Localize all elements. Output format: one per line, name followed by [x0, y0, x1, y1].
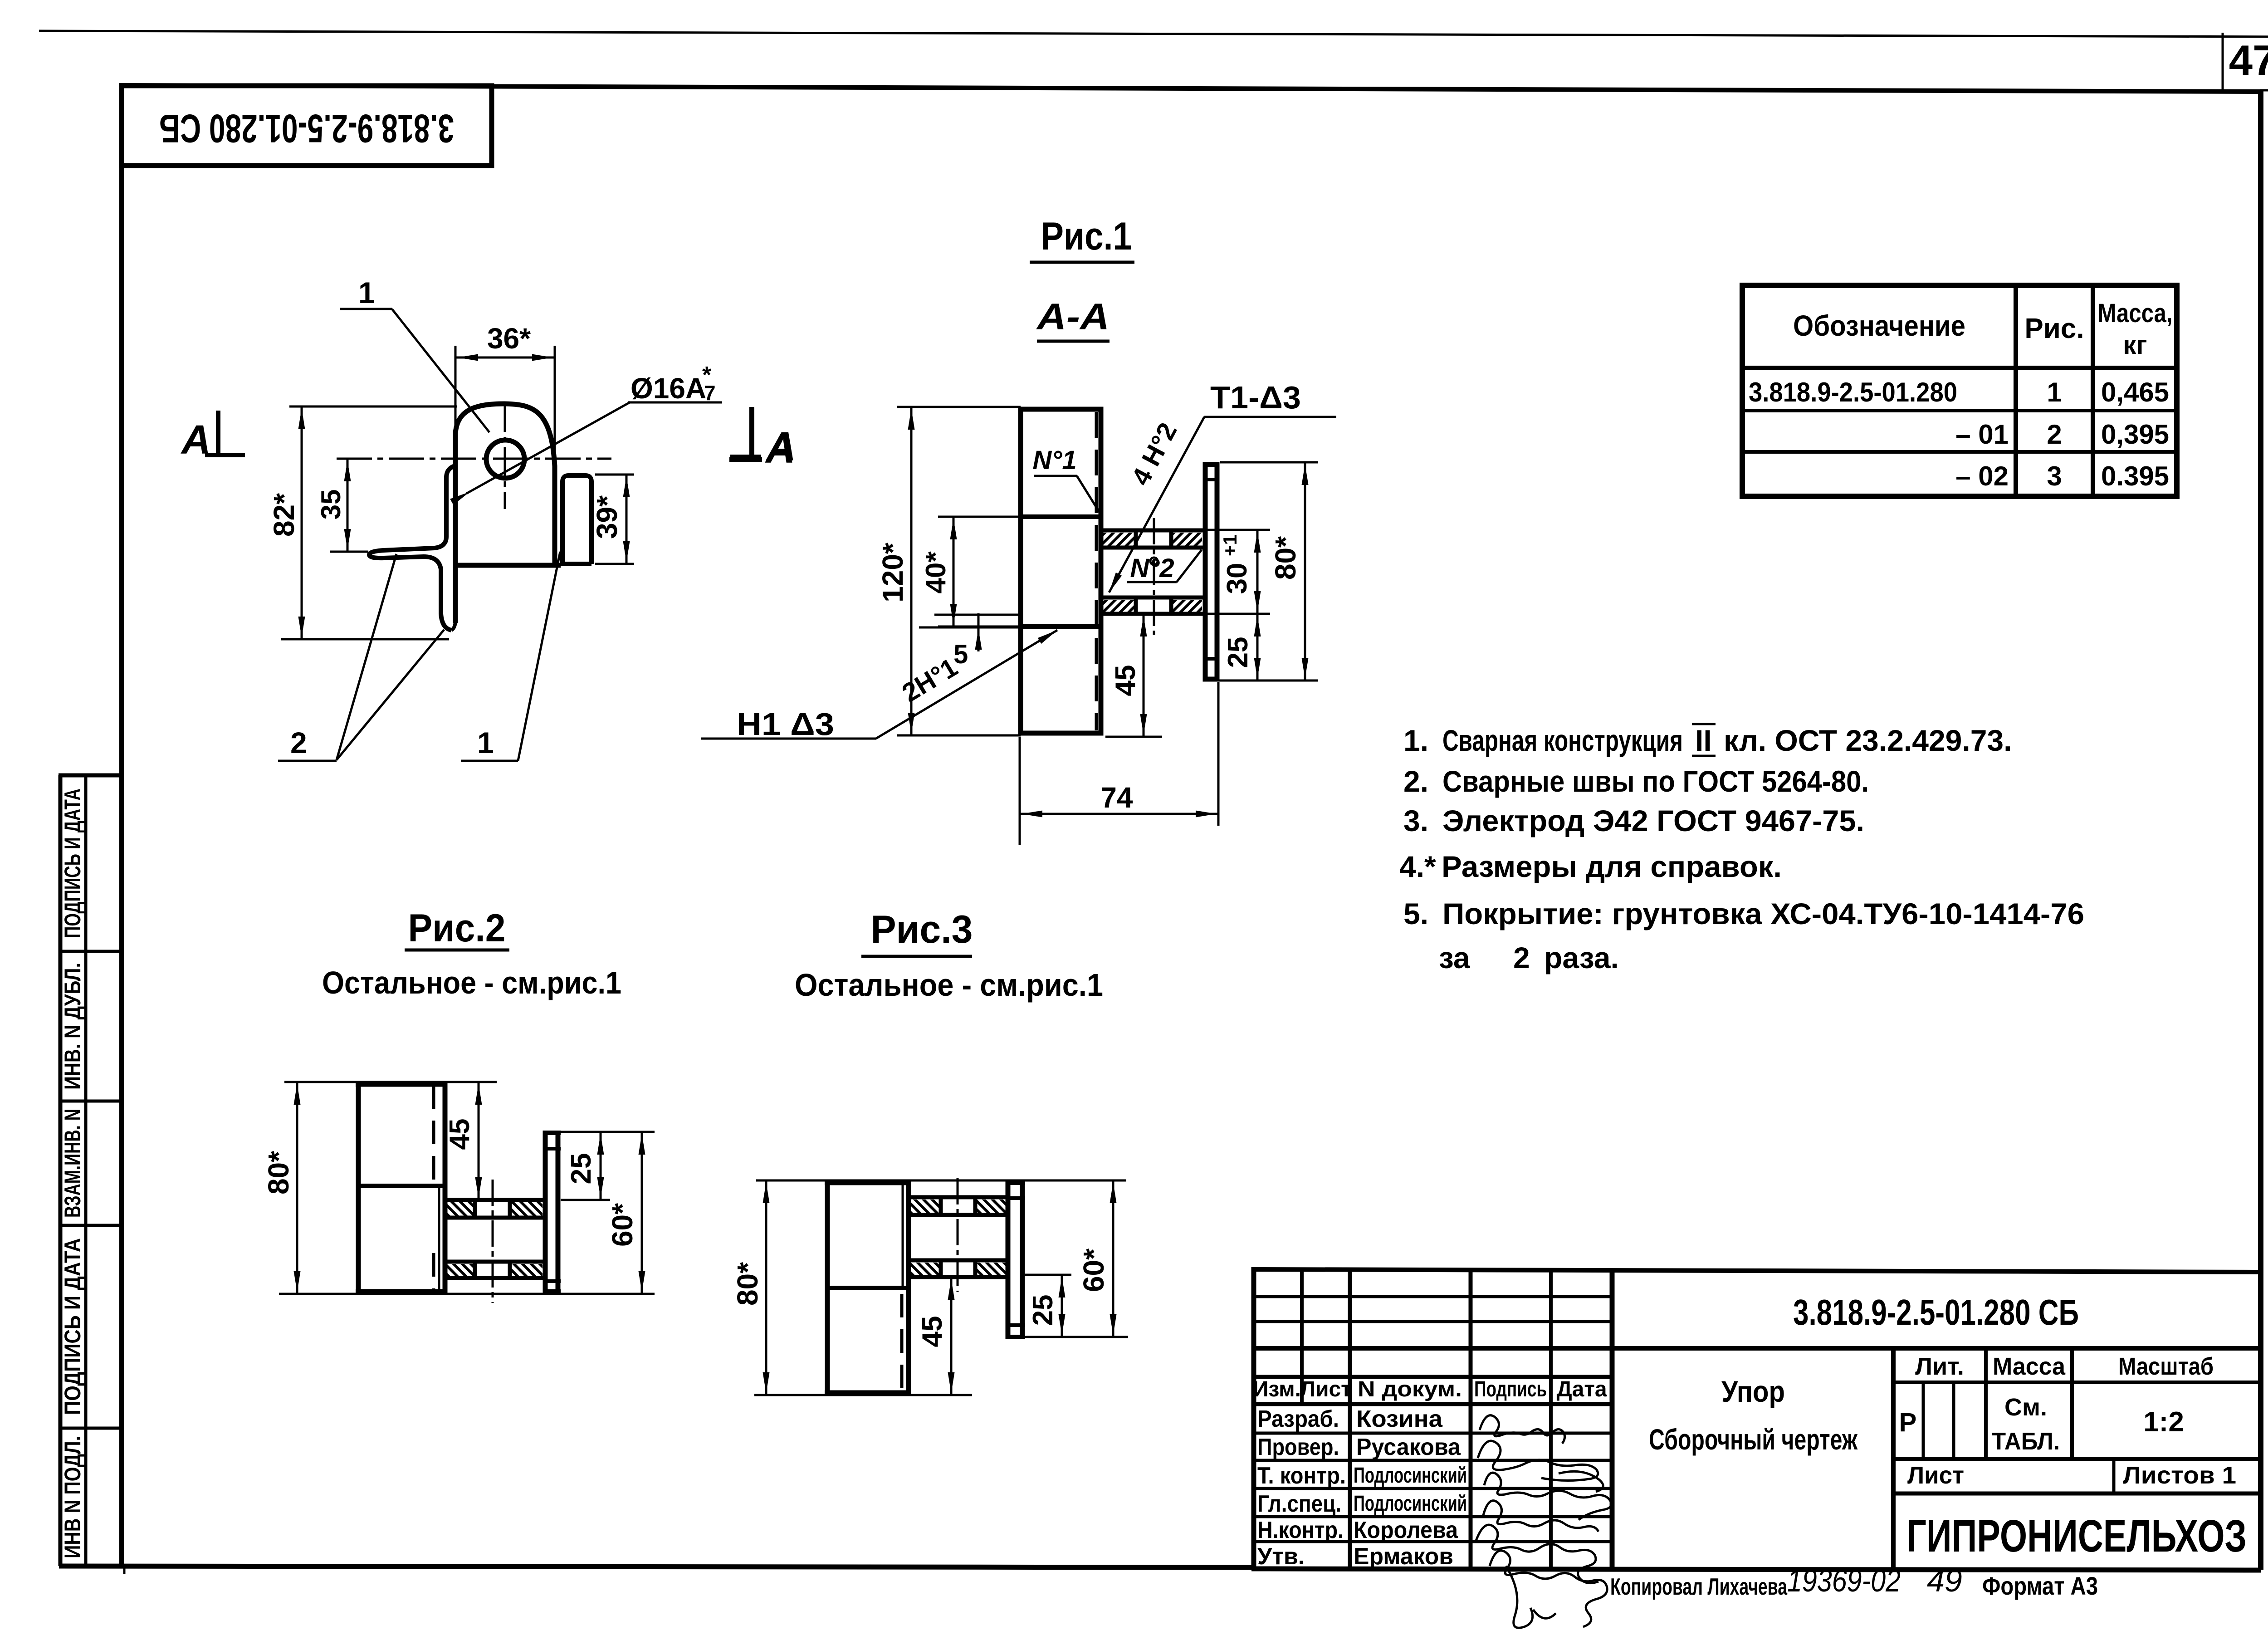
- fig3 right plate top tab line: [1006, 1196, 1025, 1200]
- svg-text:80*: 80*: [731, 1262, 764, 1306]
- title block outline: [1251, 1267, 2261, 1570]
- svg-text:1:2: 1:2: [2143, 1406, 2184, 1438]
- svg-text:2: 2: [2047, 419, 2062, 450]
- svg-text:60*: 60*: [606, 1203, 639, 1247]
- svg-text:Остальное - см.рис.1: Остальное - см.рис.1: [322, 965, 621, 1000]
- svg-text:Размеры для справок.: Размеры для справок.: [1442, 850, 1782, 883]
- frame left edge stub below bottom: [123, 1566, 126, 1574]
- dim 36* line: [455, 357, 555, 359]
- item leader 1 (top) underline: [340, 308, 392, 310]
- fig2 top ext line: [284, 1081, 497, 1083]
- fig2 bottom baseline: [279, 1293, 655, 1295]
- weld label T1 leader: [1109, 417, 1204, 592]
- section view mark: tick: [749, 407, 754, 455]
- dim 80* line: [1304, 462, 1306, 681]
- svg-text:Утв.: Утв.: [1257, 1543, 1305, 1570]
- signature Подлосинский 2: [1483, 1501, 1598, 1532]
- svg-text:Провер.: Провер.: [1257, 1434, 1339, 1460]
- fig2 dim 25 line: [600, 1132, 602, 1200]
- fig2 bottom rail slot wall left: [473, 1260, 477, 1280]
- fig2 dim 60* line: [641, 1132, 643, 1294]
- svg-text:3: 3: [2047, 461, 2062, 491]
- svg-text:3.: 3.: [1403, 804, 1428, 837]
- middle plate upper edge: [1019, 514, 1102, 519]
- top rail bottom line: [1101, 546, 1204, 550]
- svg-text:Ермаков: Ермаков: [1354, 1543, 1453, 1570]
- fig3 top ext line: [756, 1180, 1126, 1182]
- col line Nдокум/Подпись: [1469, 1269, 1473, 1569]
- dim 30+1 line: [1256, 530, 1259, 614]
- dim 74 line: [1020, 813, 1218, 815]
- dim 45 line: [1143, 614, 1145, 737]
- label Ø16A7* shelf: [628, 401, 722, 404]
- svg-text:Дата: Дата: [1556, 1377, 1607, 1401]
- bolt hole centerline: [1153, 518, 1155, 635]
- fig3 inner thin line: [902, 1184, 904, 1287]
- svg-text:80*: 80*: [1269, 536, 1302, 580]
- dim 40* line: [953, 517, 955, 627]
- svg-text:N докум.: N докум.: [1358, 1377, 1462, 1401]
- dim 40* ext top: [938, 516, 1021, 518]
- svg-text:А: А: [766, 424, 796, 470]
- dim 45 ext bottom: [1105, 736, 1162, 738]
- dim 120* ext top: [897, 406, 1021, 408]
- label N°2 underline: [1127, 581, 1177, 583]
- fig3 top rail hatch left: [910, 1199, 940, 1213]
- table column line 1: [2014, 285, 2018, 496]
- svg-text:– 01: – 01: [1955, 419, 2009, 450]
- fig3 dim 80* line: [765, 1180, 767, 1395]
- svg-text:120*: 120*: [876, 543, 909, 602]
- svg-text:Ø16А: Ø16А: [631, 372, 706, 405]
- top rail top line: [1101, 529, 1204, 533]
- svg-text:Разраб.: Разраб.: [1257, 1406, 1339, 1432]
- drawing frame bottom: [59, 1566, 1254, 1567]
- fig3 top rail slot wall right: [973, 1195, 978, 1217]
- svg-text:Козина: Козина: [1356, 1406, 1443, 1432]
- svg-text:0.395: 0.395: [2101, 461, 2169, 491]
- fig2 top rail slot wall right: [508, 1198, 512, 1219]
- weld label T1 leader arrow: [1106, 573, 1122, 594]
- svg-text:Гл.спец.: Гл.спец.: [1257, 1491, 1341, 1517]
- svg-text:ПОДПИСЬ И ДАТА: ПОДПИСЬ И ДАТА: [60, 788, 85, 938]
- svg-text:0,395: 0,395: [2101, 419, 2169, 450]
- hole centerline horizontal: [337, 458, 611, 460]
- fig2 bottom rail top line: [445, 1260, 544, 1264]
- dim 40* ext bottom: [938, 626, 1021, 628]
- fig2 hidden line upper: [432, 1085, 435, 1183]
- item leader 1 (bottom) underline: [461, 760, 518, 762]
- fig2 bottom rail slot wall right: [508, 1260, 512, 1280]
- row line designation bottom (full width): [1254, 1346, 2261, 1351]
- fig2 right plate right edge: [556, 1131, 561, 1294]
- svg-text:кл. ОСТ 23.2.429.73.: кл. ОСТ 23.2.429.73.: [1724, 724, 2012, 757]
- fig3 middle plate edge line: [826, 1286, 908, 1290]
- table row line 1: [1742, 409, 2177, 412]
- fig3 dim 45 line: [950, 1277, 953, 1395]
- signature Ермаков flourish: [1506, 1566, 1556, 1628]
- svg-text:45: 45: [444, 1119, 475, 1150]
- svg-text:Подлосинский: Подлосинский: [1354, 1464, 1467, 1488]
- bottom rail hatch right: [1172, 600, 1202, 612]
- svg-text:Королева: Королева: [1354, 1517, 1458, 1543]
- signature Козина: [1480, 1415, 1565, 1444]
- fig3 bolt centerline: [957, 1178, 959, 1292]
- fig3 bottom rail hatch right: [976, 1263, 1008, 1275]
- top border line: [39, 31, 2268, 37]
- svg-text:60*: 60*: [1077, 1248, 1110, 1292]
- svg-text:7: 7: [704, 381, 716, 405]
- signature Подлосинский 1: [1484, 1473, 1611, 1520]
- right section values row bottom: [1893, 1457, 2261, 1461]
- left margin strip outline: [59, 775, 121, 1566]
- label N°1 underline: [1034, 475, 1077, 477]
- fig3 bottom ext line: [754, 1394, 972, 1396]
- fig2 right plate top tab line: [543, 1147, 561, 1151]
- row line a: [1254, 1295, 1612, 1298]
- svg-text:45: 45: [917, 1316, 948, 1347]
- lit sub col 1: [1922, 1382, 1925, 1459]
- table row line 2: [1742, 450, 2177, 454]
- svg-text:25: 25: [1222, 637, 1254, 668]
- fig3 dim 25 ext top: [1025, 1274, 1071, 1276]
- angle piece lower leg right side: [453, 568, 458, 623]
- fig3 bottom rail slot wall right: [973, 1258, 978, 1279]
- fig3 top rail hatch right: [976, 1199, 1008, 1213]
- svg-text:Копировал Лихачева: Копировал Лихачева: [1610, 1574, 1788, 1600]
- svg-text:19369-02: 19369-02: [1787, 1563, 1901, 1598]
- angle piece bottom tip: [451, 622, 455, 630]
- table column line 2: [2091, 285, 2095, 496]
- svg-text:Масса,: Масса,: [2098, 299, 2173, 328]
- dim 82* ext bottom: [281, 638, 449, 641]
- fig3 main plate left edge: [825, 1180, 830, 1395]
- leader dot on centerline: [1150, 558, 1158, 565]
- svg-text:0,465: 0,465: [2101, 377, 2169, 407]
- title block bottom edge: [1251, 1569, 2261, 1570]
- bottom rail top line: [1101, 596, 1204, 600]
- svg-text:Масса: Масса: [1993, 1353, 2066, 1380]
- right section header row bottom: [1893, 1381, 2261, 1384]
- svg-text:+1: +1: [1219, 534, 1241, 556]
- weld label T1 shelf: [1204, 416, 1336, 418]
- dim 82* line: [301, 406, 303, 639]
- fig3 top rail top line: [909, 1195, 1010, 1199]
- svg-text:ИНВ. N ДУБЛ.: ИНВ. N ДУБЛ.: [60, 963, 85, 1090]
- fig3 main plate top edge: [825, 1180, 911, 1185]
- svg-text:Рис.3: Рис.3: [871, 908, 973, 951]
- col Масштаб: [2070, 1348, 2074, 1459]
- fig2 top rail slot wall left: [473, 1198, 477, 1219]
- fig2 top rail hatch right: [511, 1202, 543, 1216]
- fig2 top rail bottom line: [445, 1216, 544, 1220]
- section line middle/right: [1891, 1348, 1896, 1569]
- dim 25 ext bottom: [1206, 680, 1318, 682]
- fig2 dim 80* line: [296, 1082, 298, 1294]
- section mark A left: tick: [216, 411, 220, 454]
- table header bottom line: [1742, 366, 2177, 370]
- dim 35 line: [347, 459, 349, 552]
- top rail slot wall left: [1134, 529, 1138, 549]
- drawing frame right: [2258, 90, 2263, 1570]
- lit sub col 2: [1952, 1382, 1955, 1459]
- svg-text:1: 1: [2047, 377, 2062, 407]
- title Рис.3 underline: [861, 955, 972, 958]
- fig2 main plate top edge: [356, 1082, 447, 1087]
- fig3 dim 25 ext bottom: [1025, 1336, 1128, 1338]
- title block top edge: [1251, 1269, 2261, 1272]
- dim 5 ext upper: [934, 614, 1022, 616]
- item leader 2 underline: [278, 760, 337, 762]
- fig2 right plate left edge: [543, 1131, 548, 1294]
- weld label Н1 leader: [876, 630, 1057, 739]
- svg-text:Сварная конструкция: Сварная конструкция: [1442, 724, 1683, 757]
- title block left edge: [1251, 1267, 1256, 1570]
- dim 120* ext bottom: [897, 734, 1021, 737]
- svg-text:ВЗАМ.ИНВ. N: ВЗАМ.ИНВ. N: [60, 1109, 85, 1218]
- top rail hatch right: [1172, 533, 1202, 546]
- svg-text:Подпись: Подпись: [1474, 1377, 1547, 1401]
- item leader 1 (bottom) line: [518, 552, 560, 761]
- svg-text:49: 49: [1927, 1563, 1962, 1598]
- bottom rail slot wall left: [1134, 596, 1138, 616]
- fig3 top rail slot wall left: [939, 1195, 943, 1217]
- svg-text:См.: См.: [2004, 1394, 2047, 1421]
- bracket plate rounded top arc: [455, 404, 555, 466]
- fig3 right plate right edge: [1020, 1180, 1025, 1339]
- svg-text:47: 47: [2229, 36, 2268, 84]
- dim 120* line: [910, 407, 913, 735]
- svg-text:3.818.9-2.5-01.280: 3.818.9-2.5-01.280: [1749, 377, 1957, 407]
- top rail slot wall right: [1169, 529, 1173, 549]
- signature Королева: [1476, 1525, 1598, 1583]
- row line Нконтр bottom: [1254, 1540, 1612, 1543]
- fig3 bottom rail hatch left: [910, 1263, 940, 1275]
- hole centerline vertical: [504, 403, 506, 509]
- fig2 bottom rail hatch left: [447, 1264, 473, 1277]
- svg-text:1: 1: [477, 726, 494, 759]
- svg-text:Листов 1: Листов 1: [2123, 1462, 2236, 1489]
- dim 82* ext top: [289, 406, 457, 408]
- row line label bottom: [1254, 1402, 1612, 1406]
- fig2 inner thin line: [438, 1187, 440, 1291]
- svg-text:Лит.: Лит.: [1915, 1353, 1964, 1380]
- svg-text:Остальное - см.рис.1: Остальное - см.рис.1: [795, 967, 1103, 1003]
- row line Тконтр bottom: [1254, 1487, 1612, 1490]
- svg-text:45: 45: [1110, 665, 1141, 696]
- fig2 right plate top edge: [543, 1131, 561, 1135]
- title Рис.1 underline: [1030, 261, 1134, 264]
- fig2 middle plate edge line: [357, 1184, 444, 1188]
- svg-text:ТАБЛ.: ТАБЛ.: [1992, 1428, 2060, 1455]
- svg-text:Масштаб: Масштаб: [2118, 1353, 2214, 1380]
- hole Ø16: [486, 440, 524, 478]
- dim 5 ext lower: [919, 627, 1022, 629]
- signature Русакова: [1478, 1441, 1598, 1480]
- fig3 right plate top edge: [1006, 1180, 1025, 1185]
- signature Подлосинский 1 tail: [1559, 1471, 1603, 1492]
- fig3 bottom rail bottom line: [909, 1275, 1010, 1279]
- bracket plate bottom edge: [453, 563, 561, 568]
- dim 30+1 ext top: [1207, 529, 1270, 531]
- svg-text:Н.контр.: Н.контр.: [1257, 1517, 1344, 1543]
- svg-text:Русакова: Русакова: [1356, 1434, 1461, 1460]
- fig2 top rail top line: [445, 1198, 544, 1202]
- fig3 dim 25 line: [1061, 1275, 1063, 1337]
- dim 25 line: [1256, 614, 1259, 681]
- title А-А underline: [1037, 340, 1110, 343]
- bracket plate right edge: [552, 465, 557, 568]
- svg-text:74: 74: [1100, 781, 1133, 814]
- svg-text:36*: 36*: [487, 322, 531, 355]
- main plate hidden line (dashed): [1095, 412, 1098, 730]
- weld label Н1 shelf: [701, 738, 876, 740]
- svg-text:ПОДПИСЬ И ДАТА: ПОДПИСЬ И ДАТА: [60, 1238, 85, 1415]
- svg-text:5: 5: [953, 640, 968, 669]
- svg-text:Электрод Э42 ГОСТ 9467-75.: Электрод Э42 ГОСТ 9467-75.: [1442, 804, 1864, 837]
- svg-text:раза.: раза.: [1544, 941, 1619, 974]
- svg-text:Рис.2: Рис.2: [408, 906, 506, 950]
- row line Глспец bottom: [1254, 1515, 1612, 1518]
- fig2 bottom rail hatch right: [511, 1264, 543, 1277]
- svg-text:Р: Р: [1899, 1408, 1917, 1437]
- svg-text:Лист: Лист: [1300, 1377, 1351, 1401]
- col Масса: [1984, 1348, 1988, 1459]
- table border: [1742, 285, 2177, 496]
- dim 36* ext left: [455, 346, 457, 428]
- row line Разраб bottom: [1254, 1432, 1612, 1435]
- row line b: [1254, 1320, 1612, 1323]
- dim 5 line: [978, 613, 980, 651]
- hole leader arrow: [450, 489, 472, 504]
- svg-text:5.: 5.: [1403, 897, 1428, 930]
- svg-text:1.: 1.: [1403, 724, 1428, 757]
- svg-text:Лист: Лист: [1907, 1462, 1964, 1489]
- col Листов: [2112, 1459, 2116, 1493]
- fig2 main plate left edge: [356, 1082, 361, 1294]
- col line Подпись/Дата: [1549, 1269, 1553, 1569]
- svg-text:2: 2: [1513, 941, 1530, 974]
- page number box bottom: [2260, 89, 2268, 92]
- svg-text:N°2: N°2: [1130, 553, 1174, 583]
- section mark A right: tick: [750, 407, 754, 458]
- fig3 right plate bottom edge: [1006, 1335, 1025, 1339]
- svg-text:А-А: А-А: [1036, 296, 1110, 338]
- bottom rail hatch left: [1102, 600, 1135, 612]
- weld label Н1 leader arrow: [1038, 627, 1059, 644]
- middle plate lower edge: [1019, 624, 1102, 629]
- svg-text:30: 30: [1222, 563, 1253, 594]
- svg-text:за: за: [1439, 941, 1471, 974]
- fig2 dim 25 ext bottom: [561, 1199, 610, 1201]
- fig3 main plate right edge: [906, 1180, 911, 1395]
- drawing frame top: [119, 85, 2262, 92]
- section line left/middle: [1610, 1269, 1615, 1569]
- svg-text:Рис.: Рис.: [2024, 313, 2084, 344]
- svg-text:82*: 82*: [268, 493, 300, 537]
- svg-text:Упор: Упор: [1721, 1375, 1785, 1408]
- dim 74 ext left: [1019, 737, 1021, 845]
- fig3 top rail bottom line: [909, 1213, 1010, 1217]
- svg-text:– 02: – 02: [1955, 461, 2009, 491]
- right plate bottom tab line: [1203, 657, 1219, 661]
- svg-text:Покрытие: грунтовка ХС-04.ТУ6-: Покрытие: грунтовка ХС-04.ТУ6-10-1414-76: [1442, 897, 2084, 930]
- dim 35 ext bottom: [330, 551, 368, 553]
- item leader 1 (top) line: [392, 309, 489, 432]
- bottom rail bottom line: [1101, 612, 1204, 616]
- svg-text:Обозначение: Обозначение: [1793, 309, 1965, 342]
- fig3 bottom rail top line: [909, 1258, 1010, 1263]
- svg-text:35: 35: [316, 490, 346, 520]
- fig2 main plate bottom edge: [356, 1289, 447, 1294]
- svg-text:Т1-Δ3: Т1-Δ3: [1210, 380, 1301, 415]
- bottom rail slot wall right: [1169, 596, 1173, 616]
- svg-text:1: 1: [358, 276, 375, 309]
- fig3 hidden line: [900, 1294, 904, 1391]
- svg-text:80*: 80*: [262, 1151, 295, 1195]
- second plate tab bottom: [561, 562, 591, 566]
- dim 30+1 ext bottom: [1207, 613, 1270, 615]
- dim 80* ext top: [1220, 461, 1318, 464]
- svg-text:Сварные швы по ГОСТ 5264-80.: Сварные швы по ГОСТ 5264-80.: [1442, 764, 1869, 798]
- fig2 bolt centerline: [492, 1180, 494, 1303]
- row line Провер bottom: [1254, 1459, 1612, 1462]
- note 1 II underline: [1692, 755, 1716, 757]
- svg-text:3.818.9-2.5-01.280 СБ: 3.818.9-2.5-01.280 СБ: [1793, 1292, 2079, 1332]
- right section sheet row bottom: [1893, 1492, 2261, 1496]
- dim 36* ext right: [554, 346, 556, 464]
- svg-text:39*: 39*: [591, 495, 623, 539]
- top rail hatch left: [1102, 533, 1135, 546]
- svg-text:2.: 2.: [1403, 764, 1428, 798]
- main plate outline: [1021, 409, 1101, 733]
- fig2 top rail hatch left: [447, 1202, 473, 1216]
- svg-text:Рис.1: Рис.1: [1041, 215, 1132, 258]
- fig3 right plate left edge: [1006, 1180, 1011, 1339]
- svg-text:2: 2: [290, 726, 307, 759]
- item leader 2 line a: [337, 554, 396, 760]
- dim 39* ext bottom: [595, 563, 634, 565]
- svg-text:II: II: [1695, 724, 1712, 757]
- svg-text:кг: кг: [2123, 330, 2147, 360]
- drawing frame left: [119, 83, 124, 1568]
- dim 39* ext top: [595, 474, 634, 476]
- dim 39* line: [626, 475, 628, 564]
- svg-text:ГИПРОНИСЕЛЬХОЗ: ГИПРОНИСЕЛЬХОЗ: [1906, 1511, 2247, 1562]
- svg-text:N°1: N°1: [1032, 446, 1076, 475]
- row line d: [1254, 1375, 1612, 1379]
- svg-text:Изм.: Изм.: [1253, 1377, 1301, 1401]
- fig2 hidden line lower: [432, 1253, 435, 1291]
- fig3 main plate bottom edge: [825, 1390, 911, 1395]
- bent angle piece (welded sheet profile): [369, 465, 456, 630]
- hole leader line: [466, 402, 631, 494]
- svg-text:Н1 Δ3: Н1 Δ3: [737, 706, 834, 742]
- fig2 right plate bottom tab line: [543, 1279, 561, 1283]
- page number box divider: [2222, 33, 2224, 91]
- fig2 dim 45 line: [478, 1082, 480, 1200]
- svg-text:Сборочный чертеж: Сборочный чертеж: [1649, 1423, 1857, 1456]
- right plate outline: [1205, 465, 1217, 679]
- fig2 main plate right edge: [443, 1082, 448, 1294]
- svg-text:25: 25: [566, 1153, 597, 1185]
- col line Лист/Nдокум: [1348, 1269, 1352, 1569]
- bracket plate left edge: [453, 431, 458, 568]
- title Рис.2 underline: [405, 949, 509, 952]
- second plate tab (edge view, right): [562, 475, 591, 564]
- note 1 II overline: [1692, 723, 1716, 725]
- svg-text:Т. контр.: Т. контр.: [1257, 1463, 1346, 1489]
